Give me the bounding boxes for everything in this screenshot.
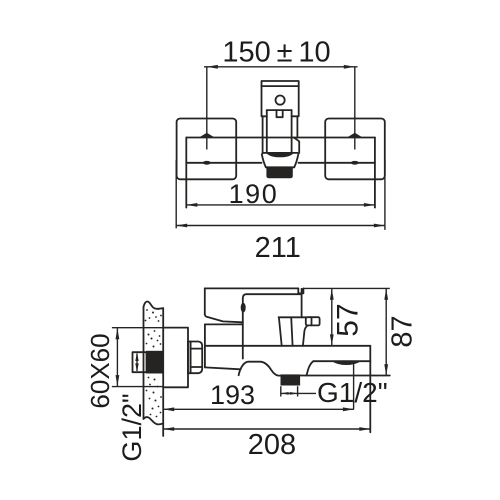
extension line left (150): [206, 67, 208, 150]
valve body right edge: [242, 298, 244, 358]
cartridge housing right edge: [291, 110, 293, 153]
spout bottom edge + 87 extension: [300, 375, 390, 377]
right eccentric cone mark: [347, 133, 362, 138]
spout collar top line: [263, 152, 298, 154]
spout opening dark crescent: [333, 361, 360, 364]
right oval mark on bar bottom: [352, 161, 358, 164]
right mounting block: [325, 119, 385, 180]
dimension 211 left arrow: [176, 224, 187, 228]
valve body bottom edge: [205, 367, 241, 369]
spout root right curve: [307, 361, 314, 375]
escutcheon plate 60x60: [163, 328, 188, 388]
body bar bottom edge left: [186, 162, 261, 164]
svg-text:57: 57: [332, 303, 365, 336]
diverter top edge: [279, 316, 306, 318]
wall break wavy bottom: [144, 417, 164, 424]
left oval mark on bar bottom: [204, 161, 210, 164]
211 extension right: [384, 160, 386, 230]
upper body right edge: [301, 294, 303, 317]
body bar right edge + 190 extension: [374, 138, 376, 208]
cartridge housing top edge: [267, 109, 292, 111]
svg-text:211: 211: [255, 232, 301, 264]
aerator dark block: [267, 168, 292, 177]
outlet G1/2 extension left: [280, 386, 282, 396]
body bar left edge + 190 extension: [185, 138, 187, 208]
spout collar left side: [262, 154, 266, 167]
wall left edge: [143, 307, 145, 419]
spout tip edge + 208 extension: [369, 346, 371, 433]
dimension 60X60 line: [116, 328, 118, 386]
60X60 extension bottom: [112, 386, 163, 388]
wall right edge / mounting face lower: [162, 387, 164, 436]
spout collar bottom: [266, 166, 294, 168]
spout opening leader line: [353, 364, 355, 410]
pipe size double arrow: [136, 354, 138, 372]
body bar bottom edge right: [299, 162, 375, 164]
shower outlet dark block: [281, 375, 300, 385]
spout front top edge: [313, 360, 370, 362]
supply pipe stub: [133, 352, 147, 372]
wall stipple dots: [145, 308, 162, 417]
handle body left edge: [262, 116, 264, 153]
dimension 193 line: [163, 408, 354, 410]
pivot screw dark oval: [241, 303, 245, 312]
svg-text:87: 87: [387, 315, 419, 347]
handle body right edge: [296, 116, 298, 137]
svg-text:60X60: 60X60: [85, 333, 115, 408]
diverter right slant: [303, 325, 308, 345]
dimension 150±10 line: [204, 66, 358, 68]
hex nut facet line upper: [191, 348, 203, 350]
dimension 190 right arrow: [364, 203, 375, 207]
spout root hump: [239, 362, 281, 376]
60X60 extension top: [112, 327, 163, 329]
svg-text:208: 208: [248, 429, 296, 461]
hex nut facet line lower: [191, 366, 203, 368]
dimension 150±10 right arrow: [344, 65, 355, 69]
wall right edge upper: [162, 308, 164, 327]
spout back top line: [205, 345, 370, 347]
dimension 190 left arrow: [186, 203, 197, 207]
handle cover cap line: [262, 85, 299, 87]
valve body left edge: [204, 324, 206, 367]
dimension 150±10 left arrow: [207, 65, 218, 69]
diverter knob box: [306, 317, 320, 325]
spout collar right side: [294, 154, 298, 167]
lever handle left edge: [204, 288, 206, 314]
outlet G1/2 dimension line: [281, 392, 316, 394]
handle cover: [262, 81, 299, 116]
valve body top edge: [205, 323, 243, 325]
dimension 190 line: [186, 204, 375, 206]
wall break wavy top: [144, 302, 164, 309]
svg-text:G1/2": G1/2": [317, 377, 388, 408]
cartridge housing left edge: [266, 110, 268, 153]
svg-text:G1/2": G1/2": [117, 393, 147, 461]
svg-text:190: 190: [229, 179, 279, 209]
handle body right chamfer: [294, 138, 299, 154]
top extension line (57/87): [303, 287, 389, 289]
dimension 211 line: [176, 225, 385, 227]
outlet G1/2 extension right: [297, 386, 299, 396]
cartridge cap: [243, 289, 302, 299]
dimension 208 line: [163, 428, 370, 430]
left eccentric cone mark: [199, 133, 214, 138]
svg-text:193: 193: [210, 380, 255, 410]
cartridge notch: [277, 110, 283, 117]
diverter left slant: [279, 317, 282, 346]
lever end tab: [298, 288, 303, 293]
dimension 211 right arrow: [374, 224, 385, 228]
extension line right (150): [354, 67, 356, 150]
lever handle underside: [205, 315, 243, 323]
dimension 57 line: [331, 289, 333, 346]
diverter knob divider: [311, 317, 313, 325]
dimension 87 line: [385, 289, 387, 375]
wall pipe dark block: [147, 351, 164, 373]
diverter middle slant: [291, 317, 292, 346]
left mounting block: [177, 119, 237, 180]
connector washer: [188, 342, 191, 374]
lever handle top: [205, 287, 298, 289]
211 extension left: [175, 160, 177, 228]
body bar top edge: [186, 137, 375, 139]
handle screw circle: [276, 96, 285, 105]
connector hex nut: [191, 342, 203, 374]
svg-text:150 ± 10: 150 ± 10: [222, 37, 330, 69]
spout collar dark arc: [268, 153, 293, 156]
